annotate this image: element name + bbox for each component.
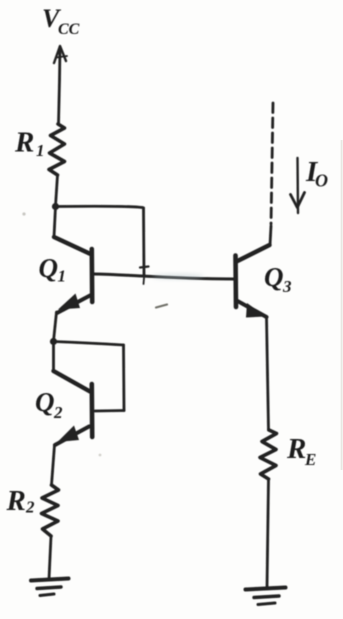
svg-text:R: R [6,485,26,517]
svg-text:CC: CC [58,21,80,38]
svg-text:Q: Q [39,253,59,283]
svg-text:E: E [304,450,316,469]
svg-text:1: 1 [58,267,67,286]
svg-text:O: O [315,171,328,191]
svg-text:Q: Q [264,262,284,292]
svg-text:Q: Q [35,387,55,417]
svg-text:3: 3 [282,277,292,296]
svg-text:2: 2 [25,498,35,517]
svg-text:1: 1 [36,141,45,160]
svg-text:R: R [286,433,306,465]
svg-text:2: 2 [53,403,63,422]
svg-text:R: R [14,127,34,159]
